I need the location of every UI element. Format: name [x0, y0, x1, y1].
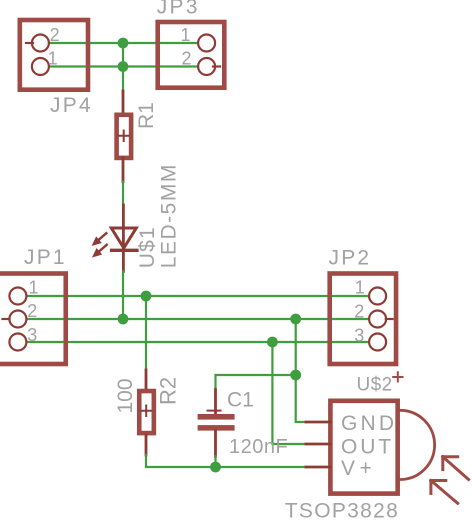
- wire riser row2 to TSOP GND: [296, 319, 306, 422]
- wire C1 bottom: [214, 456, 216, 467]
- junction dot bottom rail C1: [210, 462, 221, 473]
- svg-text:U$1: U$1: [136, 226, 159, 268]
- resistor R2 bottom lead: [145, 435, 148, 455]
- LED U$1 emission arrow 2: [93, 245, 107, 257]
- svg-text:2: 2: [354, 302, 365, 322]
- svg-text:1: 1: [48, 49, 59, 69]
- junction dot row4 x295.7: [290, 370, 301, 381]
- connector JP1 box: [0, 274, 66, 365]
- svg-text:JP2: JP2: [329, 247, 372, 270]
- junction dot rowB x123: [118, 61, 129, 72]
- JP1 pin 1 circle: [9, 288, 26, 305]
- capacitor C1 plus mark: [208, 410, 221, 412]
- U$2 dome: [400, 410, 435, 479]
- svg-text:2: 2: [27, 301, 38, 321]
- junction dot row3 x272.4: [267, 337, 278, 348]
- resistor R2 plus mark: [141, 406, 152, 417]
- svg-text:R1: R1: [135, 102, 158, 129]
- JP1 pin 2 circle: [9, 311, 26, 328]
- resistor R1 plus mark: [119, 131, 130, 142]
- U$2 pin GND stub: [306, 421, 330, 424]
- resistor R2 top wire: [145, 370, 147, 371]
- wire net row1 JP1-JP2: [27, 295, 369, 297]
- connector JP2 box: [330, 274, 396, 365]
- JP3 pin 2 stub: [213, 65, 220, 67]
- wire riser row1 to R2: [145, 296, 147, 370]
- wire C1 top drop: [214, 375, 216, 390]
- wire LED to row2: [122, 271, 124, 319]
- LED cathode lead: [122, 250, 125, 271]
- JP3 pin 2 circle: [198, 58, 215, 75]
- wire net N2 top row B: [49, 65, 198, 67]
- junction dot row2 x295.7: [290, 314, 301, 325]
- U$2 pin V+ stub: [306, 466, 330, 469]
- IR arrow 2: [431, 481, 458, 504]
- capacitor C1 plate 2: [198, 425, 235, 431]
- svg-text:JP3: JP3: [157, 0, 200, 19]
- resistor R2 top lead: [145, 370, 148, 391]
- svg-text:JP1: JP1: [24, 246, 67, 269]
- resistor R1 top lead: [122, 91, 125, 115]
- junction dot row1 x146: [141, 291, 152, 302]
- JP2 pin 3 circle: [369, 334, 386, 351]
- wire row4 C1 top to GND riser: [216, 374, 296, 376]
- wire net N1 top row A: [49, 42, 198, 44]
- svg-text:OUT: OUT: [341, 436, 394, 459]
- JP2 pin 1 circle: [369, 288, 386, 305]
- svg-text:1: 1: [29, 278, 40, 298]
- svg-text:R2: R2: [156, 377, 181, 405]
- resistor R2 body: [139, 391, 154, 433]
- JP4 pin 1 circle: [32, 58, 49, 75]
- svg-text:1: 1: [355, 278, 366, 298]
- JP4 pin 2 circle: [32, 35, 49, 52]
- capacitor C1 plate 1: [198, 414, 235, 420]
- JP1 pin 2 stub: [3, 318, 10, 320]
- wire net row3 JP1-JP2: [27, 341, 369, 343]
- svg-text:3: 3: [354, 326, 365, 346]
- U$2 plus mark: [393, 372, 402, 381]
- JP4 pin 2 stub: [26, 42, 33, 44]
- IR arrow 1: [443, 457, 469, 480]
- capacitor C1 top lead: [214, 390, 217, 415]
- JP3 pin 1 circle: [198, 35, 215, 52]
- svg-text:1: 1: [181, 25, 192, 45]
- capacitor C1 bottom lead: [214, 431, 217, 456]
- LED U$1 triangle: [111, 228, 136, 248]
- svg-text:120nF: 120nF: [229, 436, 288, 458]
- wire riser row3 to TSOP OUT: [272, 342, 306, 444]
- JP1 pin 3 circle: [9, 334, 26, 351]
- svg-text:U$2: U$2: [357, 375, 393, 396]
- wire vertical from rowA to R1: [122, 43, 124, 91]
- resistor R1 body: [117, 115, 132, 158]
- connector JP4 box: [20, 20, 88, 90]
- LED U$1 cathode bar: [112, 249, 137, 252]
- svg-text:TSOP3828: TSOP3828: [285, 500, 399, 523]
- svg-text:2: 2: [50, 25, 61, 45]
- IR receiver U$2 box: [330, 401, 397, 494]
- connector JP3 box: [158, 22, 225, 88]
- resistor R1 bottom lead: [122, 158, 125, 182]
- svg-text:V+: V+: [341, 457, 376, 480]
- LED U$1 anode lead: [122, 205, 125, 250]
- JP2 pin 2 circle: [369, 311, 386, 328]
- LED U$1 emission arrow 1: [93, 233, 107, 245]
- svg-text:100: 100: [114, 378, 137, 413]
- wire R1 to LED: [122, 182, 124, 205]
- svg-text:GND: GND: [341, 412, 397, 435]
- U$2 pin OUT stub: [306, 443, 330, 446]
- svg-text:2: 2: [182, 49, 193, 69]
- junction dot rowA x123: [118, 38, 129, 49]
- JP2 pin 2 stub: [386, 318, 393, 320]
- svg-text:3: 3: [27, 325, 38, 345]
- svg-text:C1: C1: [227, 389, 254, 412]
- wire R2 bottom to bottom rail: [146, 455, 306, 467]
- junction dot LED at row2: [118, 314, 129, 325]
- svg-text:LED-5MM: LED-5MM: [158, 163, 181, 268]
- wire net row2 JP1-JP2: [27, 318, 369, 320]
- svg-text:JP4: JP4: [50, 94, 93, 117]
